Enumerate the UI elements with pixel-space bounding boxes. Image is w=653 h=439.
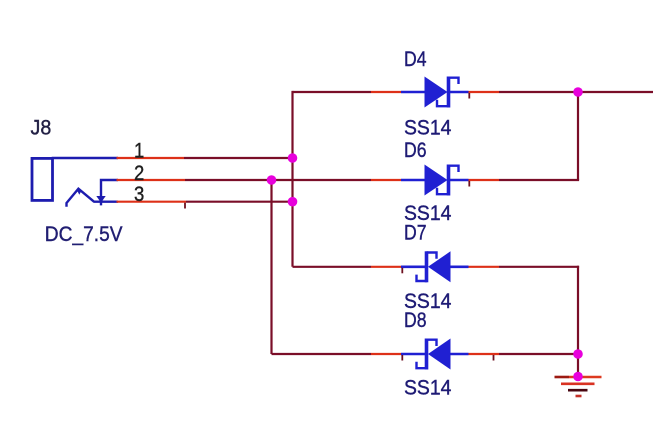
wire top row left segment (net from J8 pin1 up to D4 anode): [293, 91, 372, 93]
wire D8 row left segment: [272, 353, 372, 355]
label J8: [31, 116, 52, 139]
wire top row right segment (D4 cathode to right edge): [499, 91, 653, 93]
connector J8 pin 1 lead (blue): [52, 157, 118, 159]
label SS14 (D7): [404, 290, 452, 313]
connector J8 spring contact zigzag: [67, 189, 95, 207]
junction dot at ground attach: [573, 372, 583, 382]
wire D7 row left segment: [293, 266, 372, 268]
svg-text:D6: D6: [404, 139, 427, 162]
connector J8 body rectangle: [32, 158, 53, 200]
pin stub J8 pin2 (red): [117, 179, 186, 181]
label SS14 (D6): [404, 202, 452, 225]
diode D6 (SS14, pointing right): [371, 165, 499, 196]
junction dot D4 output: [573, 87, 583, 97]
wire right vertical lower x=578 (D7 row down to ground): [577, 266, 579, 377]
svg-text:D7: D7: [404, 222, 427, 245]
label DC_7.5V: [45, 223, 123, 246]
svg-text:3: 3: [134, 183, 144, 206]
pin number 1: [134, 139, 144, 162]
wire pin2/D6 row right (D6 cathode to right vertical): [499, 179, 579, 181]
pin stub J8 pin1 (red): [117, 157, 185, 159]
svg-text:1: 1: [134, 139, 144, 162]
wire pin3 row (J8 pin3 to left bus): [186, 201, 294, 203]
label D6: [404, 139, 427, 162]
connector J8 pin 2 contact arrowhead: [96, 196, 105, 203]
wire D8 row right segment: [499, 353, 578, 355]
connector J8 pin 2 lead with corner (blue): [101, 180, 118, 205]
wire vertical left bus x=292.5 (D4 row down to D7 row): [291, 91, 293, 267]
wire vertical bus x=271.5 (pin2 junction down to D8 row): [270, 180, 272, 354]
svg-text:SS14: SS14: [404, 117, 452, 140]
ground symbol: [555, 377, 602, 396]
label SS14 (D4): [404, 117, 452, 140]
wire pin1 row (J8 pin1 to left bus): [184, 157, 294, 159]
label SS14 (D8): [404, 377, 452, 400]
svg-text:SS14: SS14: [404, 377, 452, 400]
wire D7 row right segment to right vertical: [499, 266, 579, 268]
svg-text:DC_7.5V: DC_7.5V: [45, 223, 123, 246]
connector J8 spring arrowhead under peak: [77, 190, 82, 195]
label D7: [404, 222, 427, 245]
pin number 3: [134, 183, 144, 206]
diode D8 (SS14, pointing left): [371, 339, 499, 370]
label D4: [404, 48, 427, 71]
label D8: [404, 309, 427, 332]
connector J8 pin 3 lead (blue): [94, 200, 119, 202]
junction dot D8 row right: [573, 349, 583, 359]
pin3 end tick: [184, 203, 186, 209]
svg-text:D4: D4: [404, 48, 427, 71]
wire pin2 row left (J8 pin2 to D6 anode): [185, 179, 371, 181]
pin number 2: [134, 162, 144, 185]
diode D7 (SS14, pointing left): [371, 251, 499, 282]
diode D4 (SS14, pointing right): [371, 77, 499, 108]
svg-text:D8: D8: [404, 309, 427, 332]
wire right vertical upper x=578 (D4 output down to D6 row): [577, 92, 579, 180]
svg-text:J8: J8: [31, 116, 52, 139]
pin stub J8 pin3 (red): [117, 201, 187, 203]
junction dot pin1/left bus: [288, 153, 298, 163]
junction dot pin2/left bus2: [267, 175, 277, 185]
svg-text:2: 2: [134, 162, 144, 185]
junction dot pin3/left bus: [288, 197, 298, 207]
